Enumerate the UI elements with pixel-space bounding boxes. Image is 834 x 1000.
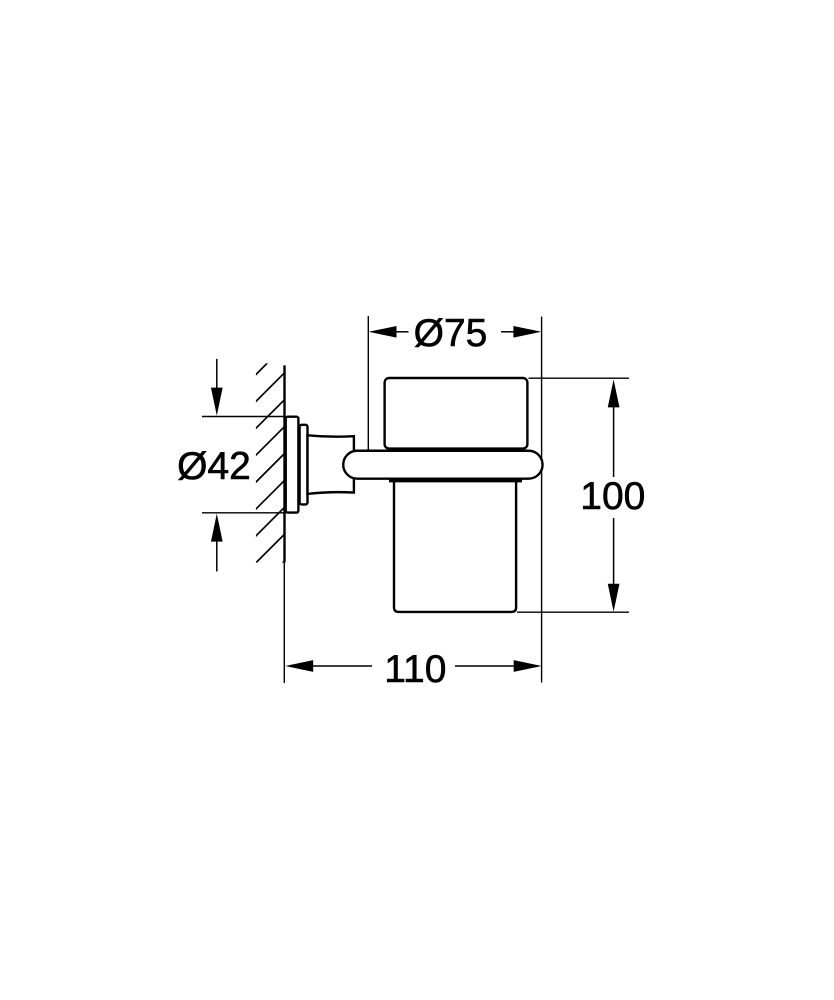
svg-text:100: 100 — [580, 475, 645, 518]
svg-text:110: 110 — [384, 648, 446, 691]
svg-text:Ø42: Ø42 — [177, 445, 251, 488]
svg-text:Ø75: Ø75 — [414, 312, 488, 355]
